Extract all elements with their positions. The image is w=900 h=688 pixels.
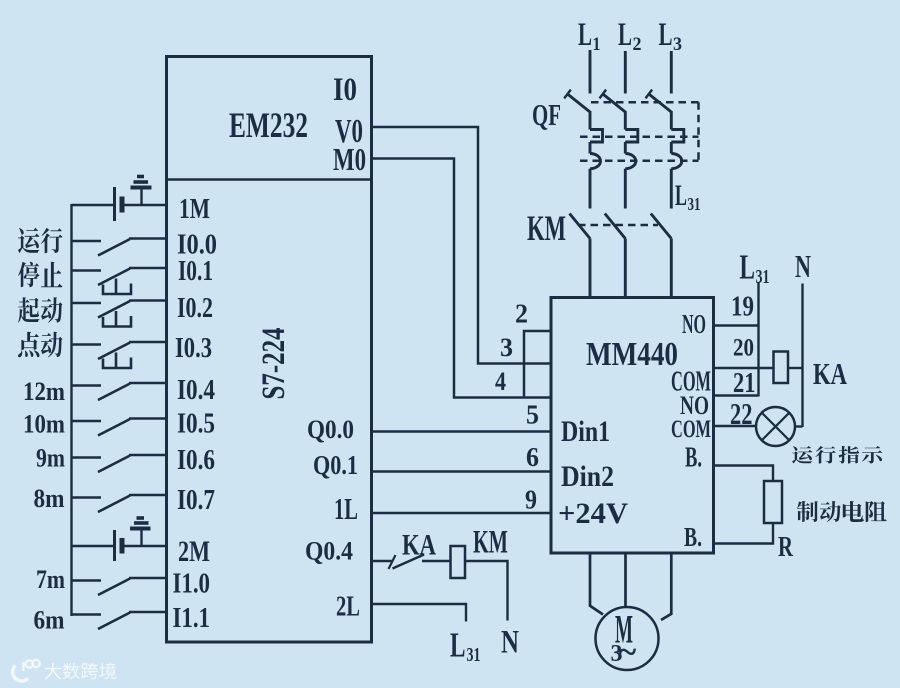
- coil KM: [451, 546, 466, 578]
- PLC main box U1 (EM232 + S7-224): [167, 57, 372, 643]
- svg-text:6: 6: [526, 442, 539, 472]
- wire pin2 jumper: [524, 331, 551, 398]
- pin label 1M: [179, 193, 210, 225]
- label 8m: [34, 484, 65, 513]
- pin number 6: [526, 442, 539, 472]
- wire L3 drop: [670, 51, 673, 94]
- label MM440: [586, 336, 678, 373]
- relay coil KA: [774, 352, 789, 384]
- KM linkage dashed line: [578, 224, 658, 227]
- label 6m: [34, 606, 65, 635]
- pin label I0.0: [177, 230, 217, 261]
- pin label COM (22b): [671, 416, 711, 443]
- label 7m: [36, 565, 65, 594]
- QF linkage dashed lines: [580, 102, 699, 161]
- pin label B-: [684, 522, 702, 552]
- wire pin21 to L31: [714, 394, 759, 396]
- battery B2 (2M): [72, 530, 167, 561]
- svg-text:KA: KA: [813, 356, 847, 391]
- switch (8m) at I0.7: [72, 495, 167, 512]
- svg-text:3: 3: [500, 333, 513, 362]
- pin label 2L: [336, 591, 360, 623]
- svg-text:R: R: [778, 531, 794, 563]
- label QF: [532, 97, 561, 132]
- svg-text:L: L: [618, 17, 632, 53]
- motor M 3~: [596, 607, 659, 670]
- pin label COM (21): [671, 366, 711, 398]
- label L2: [618, 17, 642, 55]
- net L31 vertical wire: [757, 282, 759, 397]
- pin label I0.6: [177, 445, 215, 476]
- wire pin22 to lamp: [714, 425, 757, 427]
- wire 1L to +24V (pin9): [372, 512, 552, 514]
- wire Q0.1 to Din2 (pin6): [372, 470, 552, 472]
- svg-text:5: 5: [526, 400, 539, 430]
- breaker QF pole 2: [600, 90, 638, 209]
- pin label Din1: [561, 415, 610, 448]
- svg-text:2L: 2L: [336, 591, 360, 623]
- svg-text:N: N: [795, 248, 811, 284]
- wire resistor to B-: [714, 523, 774, 544]
- net N vertical wire: [801, 284, 803, 428]
- input bus wire: [70, 204, 72, 616]
- label KA (contact): [402, 529, 436, 562]
- label 12m: [23, 377, 65, 406]
- ground symbol (1M): [131, 177, 152, 206]
- svg-text:Din1: Din1: [561, 415, 610, 448]
- svg-text:19: 19: [731, 291, 754, 323]
- pin label M0 (EM232): [333, 141, 366, 177]
- pin label V0 (EM232): [335, 113, 363, 150]
- pin number 22: [730, 396, 753, 431]
- label L31 (after QF): [675, 179, 701, 214]
- svg-text:MM440: MM440: [586, 336, 678, 373]
- svg-text:4: 4: [495, 367, 506, 396]
- label L31 (top right): [740, 248, 770, 289]
- svg-text:I0.5: I0.5: [177, 409, 215, 440]
- watermark text dashukuajing: [44, 663, 116, 680]
- label L3: [659, 17, 683, 55]
- svg-text:2: 2: [515, 299, 528, 329]
- pin label Q0.1: [313, 450, 358, 480]
- svg-text:2M: 2M: [178, 535, 210, 568]
- svg-text:3: 3: [673, 34, 682, 55]
- wire L1 drop: [589, 50, 592, 94]
- svg-text:COM: COM: [671, 416, 711, 443]
- label KM (coil): [473, 525, 508, 561]
- pin label I0.5: [177, 409, 215, 440]
- svg-text:KM: KM: [527, 208, 566, 248]
- svg-text:21: 21: [733, 368, 756, 399]
- svg-text:I0.7: I0.7: [177, 485, 215, 516]
- pin label I1.1: [173, 603, 211, 634]
- svg-text:9: 9: [525, 485, 537, 515]
- label S7-224 (rotated): [256, 328, 292, 400]
- svg-text:B.: B.: [684, 522, 702, 552]
- label R: [778, 531, 794, 563]
- svg-text:M0: M0: [333, 141, 366, 177]
- svg-text:S7-224: S7-224: [256, 328, 292, 400]
- switch (7m) at I1.0: [72, 578, 167, 595]
- svg-text:1L: 1L: [334, 491, 358, 526]
- wire pin20 to KA coil: [714, 367, 774, 369]
- label L31 (bottom): [450, 626, 481, 667]
- svg-text:I1.1: I1.1: [173, 603, 211, 634]
- svg-text:L: L: [740, 248, 756, 287]
- wire 2L to L31: [372, 604, 467, 622]
- svg-text:31: 31: [688, 194, 701, 214]
- pin number 5: [526, 400, 539, 430]
- svg-text:L: L: [675, 179, 687, 212]
- pin label I0.2: [177, 293, 213, 324]
- wire pin19 to L31: [714, 324, 759, 326]
- switch SB (run) at I0.0: [72, 239, 167, 256]
- pin label Din2: [561, 460, 614, 493]
- pin number 9: [525, 485, 537, 515]
- svg-text:KM: KM: [473, 525, 508, 561]
- watermark logo: [13, 660, 40, 681]
- label 10m: [23, 410, 65, 439]
- pin number 4: [495, 367, 506, 396]
- label 3~: [611, 634, 637, 671]
- svg-text:B.: B.: [685, 442, 702, 474]
- svg-text:KA: KA: [402, 529, 436, 562]
- svg-text:EM232: EM232: [229, 105, 308, 145]
- label start (qidong): [18, 297, 63, 323]
- indicator lamp HL: [756, 407, 803, 446]
- wire V to motor: [624, 553, 627, 607]
- svg-text:12m: 12m: [23, 377, 65, 406]
- svg-text:I0.2: I0.2: [177, 293, 213, 324]
- label run-indicator (yunxing zhishi): [792, 446, 882, 464]
- label stop (tingzhi): [18, 262, 62, 288]
- pin label I0.4: [177, 375, 215, 406]
- switch (9m) at I0.6: [72, 455, 167, 472]
- pin number 20: [733, 335, 754, 362]
- label run (yunxing): [18, 228, 63, 254]
- svg-text:Din2: Din2: [561, 460, 614, 493]
- svg-text:I1.0: I1.0: [173, 569, 211, 600]
- svg-text:1M: 1M: [179, 193, 210, 225]
- svg-text:I0.4: I0.4: [177, 375, 215, 406]
- contactor KM pole 1: [570, 214, 591, 298]
- wire W to motor: [661, 553, 671, 620]
- wire KA coil to N: [788, 367, 803, 369]
- wire Q0.0 to Din1 (pin5): [372, 430, 552, 432]
- svg-text:7m: 7m: [36, 565, 65, 594]
- svg-text:1: 1: [593, 34, 601, 55]
- wire M0 to pin4: [372, 159, 552, 398]
- label braking-resistor (zhidong dianzu): [797, 501, 887, 522]
- svg-text:Q0.0: Q0.0: [307, 415, 354, 444]
- contact KA (NO): [389, 555, 451, 570]
- pin label NO (22): [680, 391, 709, 420]
- label N (bottom): [501, 625, 519, 661]
- svg-text:Q0.4: Q0.4: [305, 537, 353, 566]
- svg-text:I0.6: I0.6: [177, 445, 215, 476]
- pin number 2: [515, 299, 528, 329]
- switch (12m) at I0.4: [72, 383, 167, 400]
- pin label I0.3: [175, 333, 212, 364]
- contactor KM pole 3: [651, 214, 672, 298]
- pin label I1.0: [173, 569, 211, 600]
- label 9m: [36, 444, 65, 473]
- breaker QF pole 3: [646, 90, 684, 209]
- breaker QF pole 1: [564, 90, 602, 209]
- wire KM coil to N: [465, 561, 508, 621]
- ground symbol (2M): [130, 518, 151, 546]
- pin label I0.7: [177, 485, 215, 516]
- svg-text:20: 20: [733, 335, 754, 362]
- label M (motor): [615, 607, 633, 652]
- wire V0 to pin3: [372, 127, 552, 364]
- label EM232: [229, 105, 308, 145]
- svg-text:QF: QF: [532, 97, 561, 132]
- wire Q0.4 out: [372, 560, 393, 562]
- label N (top right): [795, 248, 811, 284]
- label KM (contactor): [527, 208, 566, 248]
- pin label Q0.4: [305, 537, 353, 566]
- inverter box U2 MM440: [551, 298, 714, 554]
- svg-text:L: L: [578, 17, 592, 53]
- pin label B+: [685, 442, 702, 474]
- svg-text:10m: 10m: [23, 410, 65, 439]
- switch (10m) at I0.5: [72, 419, 167, 436]
- svg-text:+24V: +24V: [558, 497, 628, 530]
- pushbutton SB (jog) at I0.3: [72, 342, 167, 368]
- resistor R (braking): [764, 481, 782, 523]
- svg-text:I0.3: I0.3: [175, 333, 212, 364]
- contactor KM pole 2: [605, 214, 626, 298]
- pin label I0.1: [178, 256, 213, 287]
- pin number 21: [733, 368, 756, 399]
- svg-text:L: L: [659, 17, 673, 53]
- label KA (coil): [813, 356, 847, 391]
- wire U to motor: [590, 553, 603, 615]
- svg-text:I0: I0: [333, 72, 357, 108]
- switch (6m) at I1.1: [72, 612, 167, 629]
- svg-text:NO: NO: [682, 309, 706, 339]
- pin label +24V: [558, 497, 628, 530]
- pin label 1L: [334, 491, 358, 526]
- EM232 / S7-224 divider line: [167, 178, 372, 181]
- wire B+ to resistor: [714, 466, 774, 482]
- svg-text:L: L: [450, 626, 466, 665]
- pin number 3: [500, 333, 513, 362]
- svg-text:~: ~: [619, 634, 637, 671]
- svg-text:N: N: [501, 625, 519, 661]
- pin label I0 (EM232): [333, 72, 357, 108]
- svg-text:Q0.1: Q0.1: [313, 450, 358, 480]
- svg-text:I0.1: I0.1: [178, 256, 213, 287]
- svg-text:6m: 6m: [34, 606, 65, 635]
- pin label 2M: [178, 535, 210, 568]
- wire L2 drop: [624, 51, 627, 94]
- label jog (diandong): [18, 332, 62, 358]
- svg-text:2: 2: [633, 34, 642, 55]
- pin number 19: [731, 291, 754, 323]
- svg-text:31: 31: [467, 644, 481, 666]
- pushbutton SB (start) at I0.2: [72, 301, 167, 327]
- pin label Q0.0: [307, 415, 354, 444]
- label L1: [578, 17, 601, 55]
- battery B1 (1M): [72, 187, 167, 221]
- pushbutton SB (stop) at I0.1: [72, 268, 167, 294]
- svg-text:9m: 9m: [36, 444, 65, 473]
- svg-text:8m: 8m: [34, 484, 65, 513]
- pin label NO (19): [682, 309, 706, 339]
